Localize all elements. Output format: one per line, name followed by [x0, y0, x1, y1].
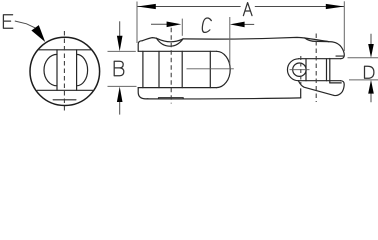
- dim C left tail: [151, 23, 168, 25]
- dim A right arrowhead: [326, 4, 344, 9]
- upper prong underside line: [336, 55, 344, 57]
- dim C right tail: [244, 23, 255, 25]
- top-right corner to upper prong tip: [329, 42, 345, 59]
- hole tangent vertical: [305, 59, 307, 81]
- dim D top extension: [348, 57, 378, 59]
- bottom edge: [147, 98, 301, 99]
- E leader line: [15, 21, 36, 28]
- slot top line right jaw: [298, 58, 340, 60]
- right boss dip lower curve (lens): [305, 38, 329, 42]
- eye horizontal centerline: [187, 68, 234, 70]
- slot end vertical left jaw: [142, 51, 144, 87]
- slot top line left jaw: [138, 50, 216, 52]
- left jaw lobe arc: [44, 54, 57, 85]
- hole horizontal centerline: [290, 69, 310, 71]
- slot bottom line right jaw: [298, 80, 340, 82]
- dim B top arrowhead: [117, 36, 123, 51]
- dim B top extension: [108, 50, 136, 52]
- dim D top line: [370, 34, 372, 45]
- lower prong inner line: [330, 82, 341, 84]
- dim A left extension: [136, 2, 138, 44]
- dim B bottom line: [119, 101, 121, 115]
- dim B bottom extension: [108, 85, 137, 87]
- dim D bottom extension: [349, 79, 378, 81]
- dim B top line: [119, 21, 121, 37]
- dim A right extension: [343, 1, 345, 51]
- right jaw lobe arc: [77, 54, 88, 85]
- right jaw cap arc: [287, 59, 298, 81]
- pin centerline left jaw: [170, 28, 172, 104]
- bottom step vertical: [300, 89, 302, 98]
- label A: [243, 3, 252, 16]
- end view centerline: [63, 31, 65, 111]
- boss dip lower curve (lens): [157, 38, 184, 46]
- right boss dip upper curve: [305, 38, 329, 42]
- pin bottom flange side view: [159, 98, 184, 99]
- upper chord: [39, 49, 92, 51]
- pin right side: [76, 50, 78, 91]
- dim A line: [137, 6, 344, 8]
- shoulder line left jaw: [138, 87, 216, 89]
- top edge middle: [183, 37, 305, 39]
- hole centerline vertical: [300, 56, 302, 85]
- dim C left extension: [181, 19, 183, 36]
- top edge with hump: [142, 38, 157, 41]
- boss dip upper curve: [157, 38, 184, 42]
- label C: [201, 18, 211, 32]
- right jaw hole circle: [293, 63, 306, 76]
- top-left prong tab: [138, 41, 142, 52]
- bottom-left corner and lower-left tab: [138, 88, 148, 99]
- right jaw centerline: [315, 34, 317, 103]
- dim D bottom line: [370, 94, 372, 103]
- lower prong tab: [334, 81, 344, 96]
- lower chord: [37, 89, 92, 91]
- slot inner end vertical: [329, 59, 331, 83]
- label B: [114, 61, 124, 75]
- dim C left arrowhead: [167, 22, 182, 28]
- E leader arrowhead: [31, 25, 45, 42]
- pin left side: [56, 50, 58, 91]
- pin right edge: [181, 51, 183, 87]
- dim D top arrowhead: [368, 44, 374, 58]
- dim B bottom arrowhead: [117, 87, 123, 102]
- lower taper diagonal: [298, 81, 334, 96]
- pin bottom flange: [53, 99, 76, 101]
- pin left edge: [158, 51, 160, 87]
- body circle: [30, 37, 100, 105]
- eye end arc: [217, 51, 231, 87]
- jaw inner vertical: [326, 59, 328, 81]
- dim A left arrowhead: [137, 4, 156, 9]
- dim D bottom arrowhead: [368, 80, 374, 94]
- dim C right extension: [229, 17, 231, 64]
- eye tangent vertical: [209, 51, 211, 87]
- label E: [3, 15, 12, 29]
- label D: [365, 66, 374, 78]
- dim C right arrowhead: [230, 22, 245, 28]
